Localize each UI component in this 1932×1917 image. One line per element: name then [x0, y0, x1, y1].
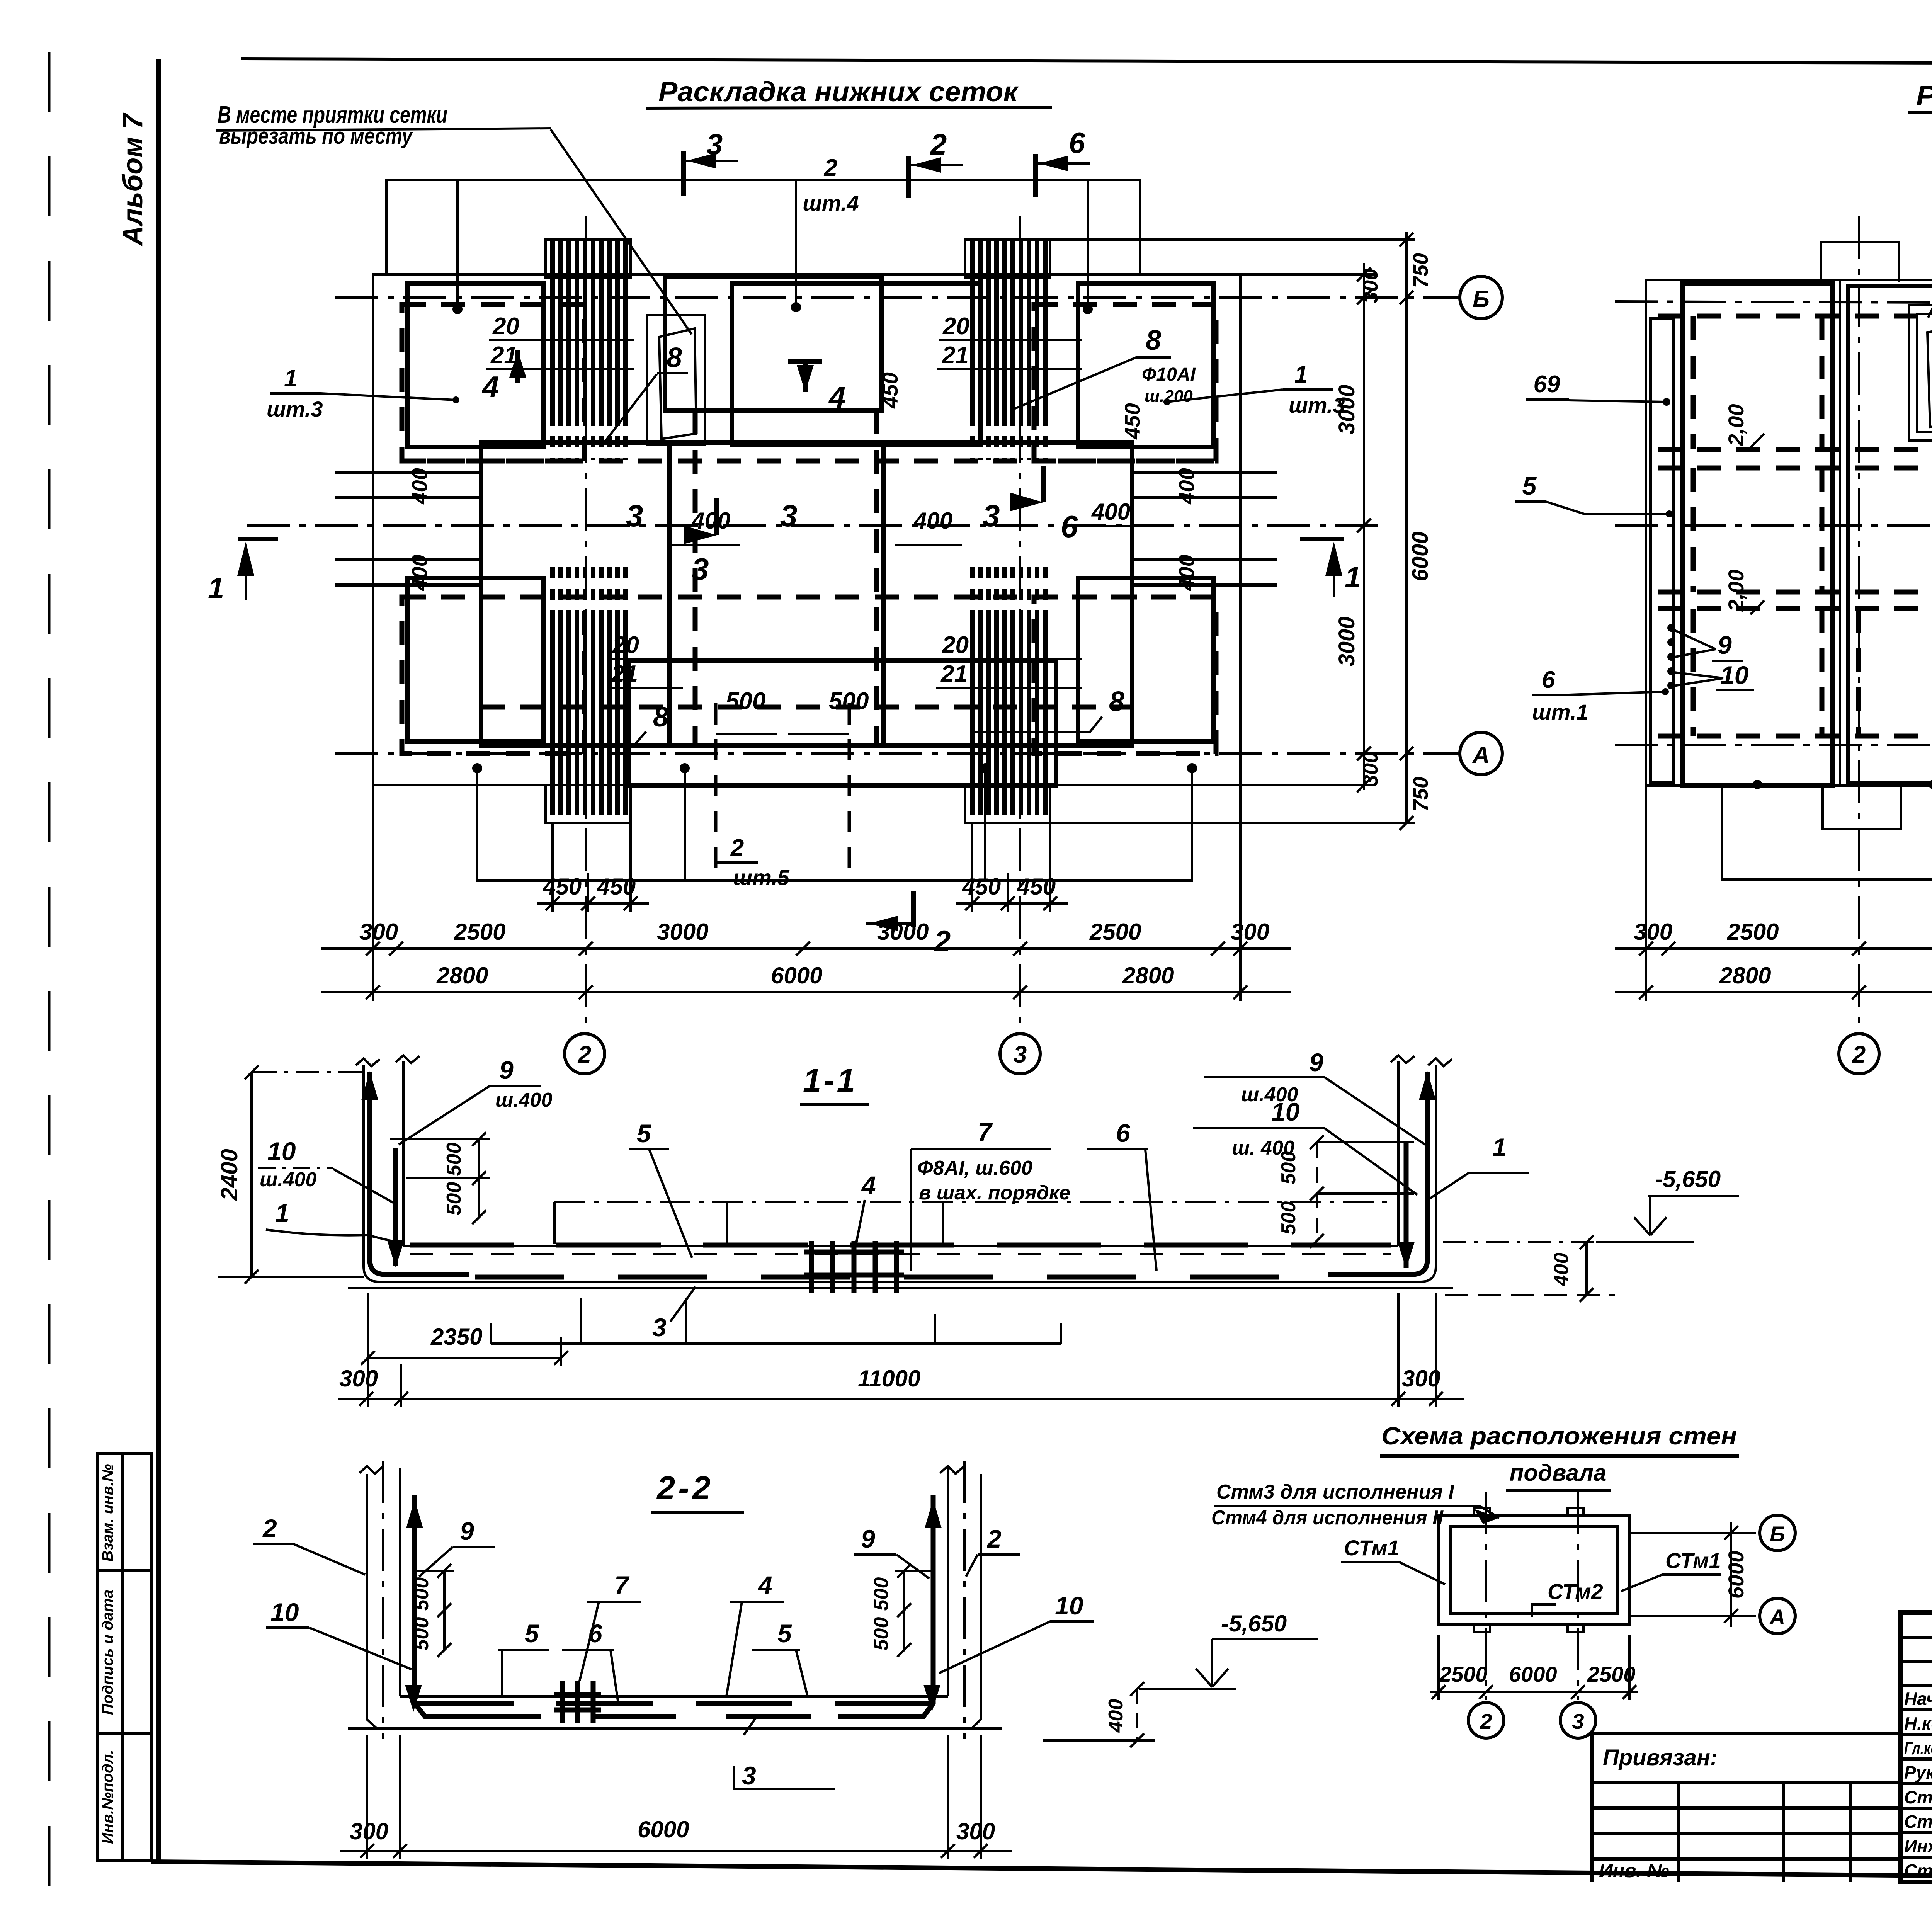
svg-text:400: 400 [407, 468, 432, 504]
dashed mesh TR [1034, 304, 1216, 461]
leader 20 BR [938, 658, 1082, 660]
left wall rebar bar2 [387, 1148, 404, 1267]
svg-text:2: 2 [578, 1041, 591, 1068]
svg-text:Ст.инж.: Ст.инж. [1904, 1787, 1932, 1807]
svg-text:9: 9 [861, 1524, 875, 1553]
svg-text:7: 7 [614, 1571, 630, 1599]
slab 22 [367, 1696, 981, 1728]
window cutout outer [647, 315, 705, 444]
bundle TL [553, 240, 626, 414]
svg-text:450: 450 [962, 874, 1001, 900]
svg-text:ш.400: ш.400 [260, 1169, 317, 1191]
right dim labels inner [1334, 269, 1382, 786]
svg-text:400: 400 [1091, 499, 1130, 525]
svg-text:300: 300 [1402, 1366, 1440, 1391]
LEFT-PLAN [208, 127, 1502, 1074]
dim 2350 [361, 1293, 568, 1407]
svg-text:Б: Б [1473, 286, 1490, 313]
right dim line inner [1240, 263, 1376, 792]
svg-text:2: 2 [1480, 1709, 1492, 1733]
svg-text:69: 69 [1534, 371, 1560, 398]
left wall inner face [402, 1061, 405, 1246]
svg-text:Раскладка верхних сеток: Раскладка верхних сеток [1916, 80, 1932, 111]
bottom dim labels 22 [350, 1817, 995, 1844]
scheme axis 2 [1485, 1492, 1487, 1700]
right dim line outer [1400, 232, 1413, 830]
signature table horizontals [1901, 1637, 1932, 1857]
mesh 4 bracket line [554, 1202, 1395, 1244]
leader 20 TL [489, 339, 634, 341]
protrusion BL [546, 785, 631, 823]
scheme circle 3 [1560, 1703, 1596, 1738]
svg-text:Гл.констр: Гл.констр [1904, 1738, 1932, 1758]
top cut mark 3 [684, 128, 738, 196]
left outer dashed line [48, 52, 51, 1915]
title block outline [1901, 1613, 1932, 1882]
bottom dim row A right [1615, 919, 1932, 956]
scheme right circles [1629, 1515, 1795, 1634]
left cut mark 1 [208, 539, 278, 605]
label 4 TC [788, 361, 845, 414]
label 3 bracket [491, 1298, 1061, 1344]
svg-text:2: 2 [930, 128, 947, 161]
svg-text:3000: 3000 [1334, 616, 1359, 666]
svg-text:2: 2 [986, 1524, 1002, 1553]
right edge step lines [1132, 473, 1277, 585]
bottom dim row B right [1615, 963, 1932, 999]
svg-text:2500: 2500 [1587, 1662, 1636, 1686]
svg-text:10: 10 [1271, 1097, 1300, 1126]
svg-text:Ф10АI: Ф10АI [1142, 364, 1196, 385]
label 5 [629, 1119, 692, 1258]
top center mesh A [665, 277, 881, 410]
svg-text:6000: 6000 [1724, 1551, 1748, 1599]
wall dim 500 500 left 22 [417, 1564, 454, 1657]
bottom dim 450 pairs left [537, 823, 649, 912]
bundle TR [972, 240, 1045, 414]
svg-text:2: 2 [824, 155, 837, 181]
svg-text:20: 20 [942, 313, 969, 340]
leader 21 TL [486, 368, 634, 370]
leader 21 BR [936, 687, 1082, 689]
label 400 mid left [672, 508, 740, 545]
axis B line [335, 296, 1459, 299]
svg-text:500: 500 [443, 1143, 465, 1176]
svg-text:21: 21 [942, 342, 969, 369]
label stm1 right [1621, 1548, 1721, 1591]
svg-text:2400: 2400 [216, 1149, 242, 1201]
svg-text:20: 20 [492, 313, 519, 340]
svg-text:Ст.инж.: Ст.инж. [1904, 1812, 1932, 1832]
svg-text:2: 2 [1852, 1041, 1866, 1068]
section mark 3 mid [684, 498, 717, 586]
mid band divider 1 [667, 442, 672, 746]
top border line [241, 59, 1932, 65]
svg-text:20: 20 [612, 632, 639, 658]
svg-text:Н.контр.: Н.контр. [1904, 1713, 1932, 1733]
scheme title underline1 [1380, 1454, 1739, 1458]
bottom bracket sht5 [473, 764, 1196, 881]
svg-text:1: 1 [1294, 361, 1308, 388]
label 2 sht5 [717, 835, 790, 890]
svg-text:300: 300 [1359, 269, 1382, 303]
svg-text:8: 8 [1146, 325, 1161, 356]
section 1-1 title underline [800, 1103, 869, 1106]
label 400 mid right [895, 508, 962, 545]
slab bottom rebar dashes 22 [456, 1714, 889, 1719]
label 6 [1087, 1119, 1156, 1271]
right dim labels outer [1408, 253, 1433, 811]
label 3 text [652, 1287, 696, 1342]
svg-text:3: 3 [742, 1761, 756, 1790]
scheme circle 2 [1468, 1703, 1504, 1738]
svg-text:8: 8 [667, 342, 682, 373]
stamp column divider [121, 1454, 124, 1861]
svg-text:500: 500 [1277, 1201, 1300, 1235]
svg-text:3: 3 [1014, 1041, 1027, 1068]
svg-text:3: 3 [626, 498, 643, 533]
svg-text:3: 3 [692, 552, 709, 586]
svg-text:400: 400 [1105, 1699, 1127, 1733]
left edge step lines [335, 473, 481, 585]
wall dim 500 500 right [1310, 1135, 1414, 1248]
svg-text:6: 6 [1069, 127, 1085, 160]
gap thin verticals [1840, 281, 1932, 785]
svg-text:500: 500 [410, 1617, 433, 1651]
label 9 left 22 [419, 1517, 495, 1577]
mid axis line [247, 524, 1379, 527]
svg-text:2500: 2500 [1727, 919, 1779, 945]
svg-text:500: 500 [726, 688, 765, 714]
window cutout inner [659, 328, 696, 439]
label 2 left 22 [253, 1514, 365, 1575]
svg-text:Альбом 7: Альбом 7 [117, 112, 148, 246]
top notch 1 [1821, 242, 1899, 282]
dashed rows [1658, 316, 1932, 736]
svg-text:Подпись и дата: Подпись и дата [99, 1590, 116, 1715]
level mark -5.650 [1443, 1166, 1739, 1242]
label 10 left 22 [266, 1598, 412, 1669]
svg-text:11000: 11000 [858, 1366, 920, 1391]
svg-text:3: 3 [652, 1313, 667, 1342]
svg-text:5: 5 [637, 1119, 651, 1148]
500 labels right 22 [870, 1577, 893, 1651]
bottom border line [151, 1862, 1932, 1882]
svg-text:10: 10 [1055, 1591, 1083, 1620]
dashed panel verticals [1693, 316, 1932, 736]
stm leader arrow [1474, 1506, 1499, 1524]
right plan title underline [1908, 111, 1932, 113]
left wall rebar bar1 [361, 1071, 469, 1274]
dim 2400 [218, 1065, 364, 1284]
label 10 sh400 left [258, 1137, 393, 1203]
svg-text:Раскладка нижних сеток: Раскладка нижних сеток [658, 77, 1019, 107]
label stm1 left [1341, 1536, 1445, 1584]
svg-text:400: 400 [1550, 1253, 1573, 1287]
label 2.00 bottom [1724, 570, 1764, 615]
narrow strip left [1650, 318, 1673, 783]
axis 2 line right [1858, 216, 1860, 1034]
label 2 right 22 [966, 1524, 1020, 1577]
svg-text:300: 300 [956, 1818, 995, 1844]
right wall 22 [940, 1466, 981, 1720]
svg-text:ш.400: ш.400 [495, 1089, 553, 1111]
scheme dim labels [1439, 1662, 1636, 1686]
svg-text:Инжен.: Инжен. [1904, 1836, 1932, 1856]
leader 20 TR [939, 339, 1082, 341]
extension verticals right [1646, 786, 1932, 1001]
left plan cut-note leader [551, 129, 692, 334]
svg-text:подвала: подвала [1510, 1460, 1607, 1486]
svg-text:10: 10 [270, 1598, 299, 1626]
bottom dim labels [339, 1366, 1440, 1391]
top center mesh B [732, 284, 980, 445]
svg-text:2350: 2350 [430, 1324, 482, 1350]
svg-text:1: 1 [208, 572, 224, 605]
svg-text:-5,650: -5,650 [1221, 1611, 1287, 1636]
top cut mark 2 [909, 128, 963, 198]
scheme axis 3 [1577, 1492, 1579, 1700]
WALL-SCHEME [1211, 1422, 1795, 1738]
dashed band line low [402, 595, 1216, 600]
bundle BR [972, 612, 1045, 815]
svg-text:500: 500 [870, 1577, 893, 1611]
svg-text:500: 500 [829, 688, 869, 714]
svg-text:Схема расположения стен: Схема расположения стен [1381, 1422, 1737, 1450]
svg-text:6: 6 [1542, 667, 1555, 693]
svg-text:9: 9 [1718, 631, 1732, 659]
mid band rect [481, 442, 1132, 746]
svg-text:2800: 2800 [1719, 963, 1771, 988]
svg-text:6: 6 [588, 1619, 603, 1648]
label 4 [856, 1171, 876, 1245]
svg-text:1: 1 [275, 1199, 289, 1227]
label 500 dashed left [716, 688, 777, 877]
label 5 mid-right 22 [752, 1619, 808, 1696]
stamp column box [97, 1454, 151, 1861]
svg-text:300: 300 [359, 919, 398, 945]
axis B line right [1615, 301, 1932, 305]
bundle BR dashed head [972, 567, 1045, 612]
dashed band line mid-bottom [481, 705, 1132, 710]
label 7 22 [580, 1571, 641, 1681]
slab thin bottom line [348, 1287, 1453, 1289]
svg-text:500: 500 [443, 1182, 465, 1216]
svg-text:300: 300 [1359, 752, 1382, 786]
svg-text:6: 6 [1116, 1119, 1131, 1147]
outer plate rect right [1646, 280, 1932, 786]
svg-text:Инв.№подл.: Инв.№подл. [99, 1750, 116, 1844]
svg-text:3: 3 [983, 498, 1000, 533]
svg-text:400: 400 [1174, 468, 1199, 504]
dim 400 right 22 [1043, 1682, 1155, 1747]
bottom dim row A [321, 919, 1291, 956]
scheme box inner [1450, 1526, 1618, 1614]
svg-text:шт.4: шт.4 [803, 191, 859, 215]
section 2-2 title underline [651, 1511, 744, 1514]
label 10 sh400 right-top [1193, 1097, 1417, 1195]
dashed mesh TL [402, 304, 585, 461]
slab bottom rebar dashes [475, 1275, 1325, 1280]
window cutout right plan [1909, 305, 1932, 441]
svg-text:4: 4 [828, 380, 845, 414]
bottom dim 450 pairs right [956, 823, 1068, 912]
label 10 right 22 [939, 1591, 1094, 1673]
bottom dim 300 11000 300 [338, 1293, 1464, 1407]
svg-text:шт.3: шт.3 [267, 397, 323, 421]
wall top squiggles [356, 1058, 380, 1066]
panel 2 [1848, 286, 1932, 783]
protrusion TR [965, 240, 1050, 277]
svg-text:6000: 6000 [1408, 531, 1433, 581]
label 7 with spec [911, 1118, 1070, 1271]
svg-text:9: 9 [460, 1517, 474, 1545]
label 2 sht4 [803, 155, 859, 215]
axis 2 circle [565, 1034, 605, 1074]
svg-text:2-2: 2-2 [656, 1470, 714, 1507]
left border thick line [156, 59, 161, 1862]
right wall inner face [1397, 1061, 1400, 1246]
dim 400 right [1445, 1235, 1615, 1302]
svg-text:Стм3 для исполнения I: Стм3 для исполнения I [1216, 1481, 1455, 1503]
TITLES [216, 77, 1932, 334]
extension verticals to dims [373, 786, 1240, 1001]
svg-text:6000: 6000 [771, 963, 822, 988]
500 labels right [1277, 1151, 1300, 1235]
svg-text:2800: 2800 [1122, 963, 1174, 988]
left wall 22 [359, 1466, 400, 1720]
svg-text:шт.1: шт.1 [1532, 700, 1588, 724]
leader 20 BL [609, 658, 683, 660]
right plan cut-note leader [1928, 170, 1932, 318]
dashed mesh BL [402, 597, 585, 754]
left wall axis 22 [382, 1461, 384, 1739]
label 1 sht3 left [267, 365, 459, 421]
label 5 left [1515, 471, 1673, 517]
label 1 left [266, 1199, 402, 1243]
label 8 TL [603, 342, 688, 444]
bundle BL [553, 612, 626, 815]
wall dim 500 500 right 22 [895, 1564, 931, 1657]
label 9 sh400 left [399, 1056, 553, 1145]
svg-text:3000: 3000 [877, 919, 929, 945]
svg-text:450: 450 [543, 874, 582, 900]
axis 3 line [1019, 216, 1021, 1034]
bundle TL dashed tail [553, 414, 626, 460]
svg-text:вырезать по месту: вырезать по месту [219, 124, 413, 149]
svg-text:Инв. №: Инв. № [1599, 1860, 1669, 1881]
svg-text:2800: 2800 [436, 963, 488, 988]
bottom cut mark 2 [866, 891, 951, 958]
svg-text:2,00: 2,00 [1724, 570, 1748, 612]
label 8 BL [526, 702, 668, 746]
svg-text:4: 4 [757, 1571, 772, 1599]
top bracket sht4 [386, 180, 1140, 313]
svg-text:21: 21 [611, 661, 638, 687]
svg-text:1: 1 [1345, 561, 1361, 594]
svg-text:21: 21 [940, 661, 968, 687]
axis B circle [1460, 276, 1502, 319]
level mark -5.650 22 [1139, 1611, 1318, 1689]
dashed band line top [402, 459, 1216, 464]
center mesh bars 7 [804, 1241, 904, 1293]
left plan cut-note underline [216, 128, 551, 131]
svg-text:2500: 2500 [1439, 1662, 1488, 1686]
svg-text:3000: 3000 [657, 919, 708, 945]
500 labels left [443, 1143, 465, 1216]
bundle TR dashed tail [972, 414, 1045, 460]
svg-text:8: 8 [1109, 686, 1124, 717]
mid band divider 2 [881, 442, 886, 746]
svg-text:300: 300 [339, 1366, 378, 1391]
svg-text:5: 5 [525, 1619, 539, 1648]
notch top2 [1568, 1508, 1583, 1515]
svg-text:400: 400 [913, 508, 952, 534]
corner mesh BL [408, 578, 543, 742]
svg-text:Ст.инж: Ст.инж [1904, 1861, 1932, 1881]
label 1 right [1430, 1133, 1529, 1199]
svg-text:6: 6 [1061, 509, 1078, 544]
svg-text:СТм2: СТм2 [1548, 1579, 1603, 1604]
bottom dim row B [321, 963, 1291, 999]
svg-text:450: 450 [1120, 403, 1145, 439]
right wall rebar bar2 [1398, 1142, 1415, 1269]
notch bot1 [1474, 1625, 1490, 1632]
svg-text:6000: 6000 [1509, 1662, 1557, 1686]
svg-text:9: 9 [499, 1056, 514, 1084]
right L rebar 22 [838, 1495, 942, 1716]
svg-text:А: А [1769, 1605, 1785, 1629]
svg-text:2500: 2500 [454, 919, 505, 945]
bottom notch 1 [1823, 786, 1901, 829]
left L rebar 22 [405, 1495, 510, 1716]
SECTION-11 [216, 1048, 1739, 1407]
svg-text:5: 5 [777, 1619, 792, 1648]
excavation top extension [1050, 238, 1415, 241]
svg-text:2: 2 [730, 835, 744, 861]
svg-text:ш. 400: ш. 400 [1232, 1137, 1294, 1159]
svg-text:4: 4 [481, 370, 499, 404]
svg-text:А: А [1472, 742, 1490, 769]
svg-text:в шах. порядке: в шах. порядке [919, 1182, 1070, 1204]
slab top rebar dashes [410, 1243, 1391, 1248]
label 2.00 top [1724, 404, 1764, 448]
label 69 [1526, 371, 1670, 406]
mid axis line right [1615, 524, 1932, 527]
svg-text:400: 400 [407, 555, 432, 591]
svg-text:-5,650: -5,650 [1655, 1166, 1721, 1192]
slab top rebar dashes 22 [417, 1701, 931, 1706]
svg-text:300: 300 [350, 1818, 388, 1844]
roles column [1904, 1689, 1932, 1881]
svg-text:2: 2 [934, 925, 951, 958]
svg-text:300: 300 [1231, 919, 1269, 945]
left plan title underline [646, 107, 1052, 108]
svg-text:9: 9 [1309, 1048, 1323, 1077]
label 1 sht3 right [1163, 361, 1345, 417]
svg-text:1: 1 [1492, 1133, 1507, 1162]
mid band dashed vertical 1 [693, 410, 698, 746]
RIGHT-PLAN [1515, 216, 1932, 1074]
panel 1 [1683, 284, 1832, 785]
svg-text:10: 10 [267, 1137, 296, 1165]
slab top line [403, 1245, 1398, 1247]
axis A circle [1460, 732, 1502, 775]
svg-text:4: 4 [861, 1171, 876, 1199]
svg-text:750: 750 [1409, 777, 1432, 811]
TITLE-BLOCK [1592, 1546, 1932, 1882]
svg-text:300: 300 [1634, 919, 1672, 945]
